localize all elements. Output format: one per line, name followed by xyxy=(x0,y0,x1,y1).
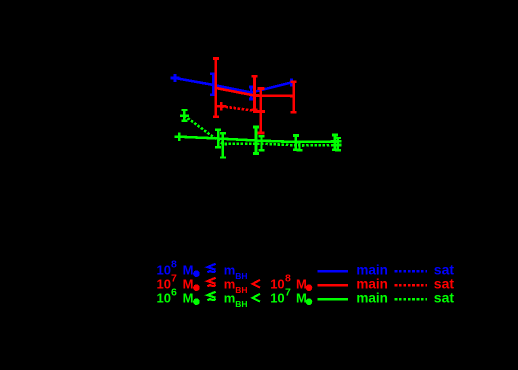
svg-text:BH: BH xyxy=(235,271,247,281)
legend row green sun circle 1 xyxy=(193,298,200,305)
red error bar bin B xyxy=(253,76,256,109)
legend row green dotted sample xyxy=(395,298,427,300)
green error bar bin C xyxy=(294,136,297,150)
legend row red solid sample xyxy=(318,284,348,286)
svg-text:10: 10 xyxy=(270,290,284,305)
legend row red sun circle 2 xyxy=(306,284,313,291)
svg-text:8: 8 xyxy=(285,273,291,285)
svg-text:BH: BH xyxy=(235,285,247,295)
legend row blue dotted sample xyxy=(395,270,427,272)
red plus marker p2 xyxy=(253,110,265,113)
blue error bar bin B xyxy=(250,87,253,99)
legend row red sun circle 1 xyxy=(193,284,200,291)
red error bar bin A xyxy=(215,59,218,117)
legend row blue lesssim symbol xyxy=(207,264,215,273)
svg-text:10: 10 xyxy=(157,290,171,305)
svg-text:main: main xyxy=(356,262,388,277)
svg-text:M: M xyxy=(296,290,307,305)
legend row green lesssim symbol xyxy=(207,292,215,301)
green dotted error bar bin C xyxy=(298,142,300,150)
svg-text:10: 10 xyxy=(157,276,171,291)
legend row red lesssim symbol xyxy=(207,278,215,287)
legend row green label text xyxy=(157,287,455,309)
legend row green solid sample xyxy=(318,298,348,300)
svg-text:sat: sat xyxy=(434,289,455,305)
legend row green sun circle 2 xyxy=(306,298,313,305)
legend row red dotted sample xyxy=(395,284,427,286)
green dotted line xyxy=(184,116,342,146)
svg-text:m: m xyxy=(224,276,236,291)
svg-text:main: main xyxy=(356,276,388,291)
green dotted error bar bin B xyxy=(260,136,262,150)
svg-text:m: m xyxy=(224,262,236,277)
blue error bar bin C xyxy=(290,79,293,87)
red dotted error bar bin B xyxy=(257,89,264,134)
legend row blue solid sample xyxy=(318,270,348,272)
blue plus marker p1 xyxy=(171,74,180,82)
legend row green less-than symbol xyxy=(252,294,260,302)
green line xyxy=(179,137,341,142)
red error bar bin C xyxy=(292,82,295,113)
green dotted error bar bin D xyxy=(337,138,339,150)
green dotted marker+bar p0 xyxy=(180,110,189,121)
blue error bar bin A xyxy=(212,74,215,95)
svg-text:7: 7 xyxy=(171,273,177,285)
svg-text:M: M xyxy=(296,276,307,291)
green dotted error bar bin A xyxy=(222,133,224,157)
green plus marker p0 xyxy=(175,133,184,141)
svg-text:main: main xyxy=(356,290,388,305)
svg-text:BH: BH xyxy=(235,299,247,309)
svg-text:M: M xyxy=(183,276,194,291)
svg-text:m: m xyxy=(224,290,236,305)
svg-text:7: 7 xyxy=(285,287,291,299)
green error bar bin A xyxy=(217,130,220,148)
red dotted line xyxy=(221,106,260,111)
green error bar bin B xyxy=(255,127,258,154)
legend row red less-than symbol xyxy=(252,280,260,288)
legend row blue sun circle 1 xyxy=(193,270,200,277)
svg-text:8: 8 xyxy=(171,259,177,271)
red plus marker p1 xyxy=(217,102,226,110)
green error bar bin D xyxy=(334,135,337,150)
svg-text:10: 10 xyxy=(270,276,284,291)
svg-text:M: M xyxy=(183,262,194,277)
svg-text:10: 10 xyxy=(157,262,171,277)
svg-text:6: 6 xyxy=(171,287,177,299)
blue line xyxy=(175,78,291,93)
legend row blue label text xyxy=(157,259,455,281)
svg-text:M: M xyxy=(183,290,194,305)
legend row red label text xyxy=(157,273,455,295)
red line xyxy=(216,88,294,96)
